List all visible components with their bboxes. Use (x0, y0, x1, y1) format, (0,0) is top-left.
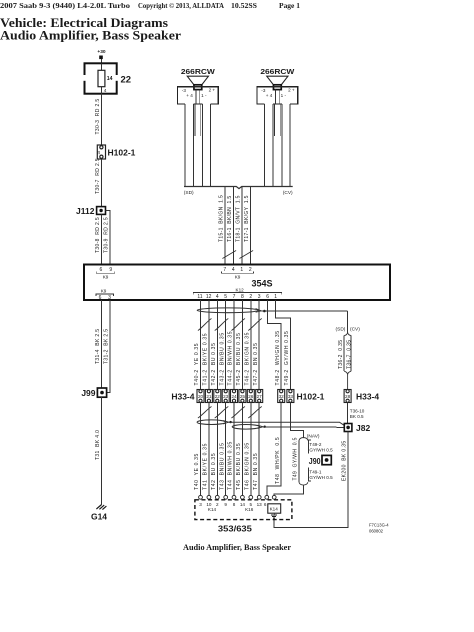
K14 right sub-box (268, 504, 281, 513)
NAV fork split (299, 438, 308, 441)
svg-text:2: 2 (249, 294, 252, 300)
twisted pair marks below H33-4 (198, 407, 212, 419)
wire through fuse (101, 63, 103, 94)
wire T36-2 (343, 336, 345, 372)
svg-text:4: 4 (104, 88, 107, 94)
NAV branch bracket upper (308, 440, 311, 454)
svg-text:Audio Amplifier, Bass Speaker: Audio Amplifier, Bass Speaker (183, 542, 291, 552)
svg-text:26: 26 (248, 394, 254, 399)
speaker 266RCW right (CV) cone (267, 76, 288, 85)
svg-text:22: 22 (215, 394, 221, 399)
wire fuse to H102-1 (101, 94, 103, 145)
wire T49 GY/WH direct branch (298, 441, 300, 482)
svg-text:7: 7 (223, 267, 226, 273)
junction dot oval B (264, 426, 266, 428)
svg-text:14: 14 (107, 76, 113, 82)
svg-text:3: 3 (199, 502, 202, 507)
ground G14 (96, 505, 106, 510)
svg-text:T43 BN/BU 0.35: T43 BN/BU 0.35 (219, 442, 225, 490)
svg-text:32: 32 (279, 394, 285, 399)
svg-text:T49-2: T49-2 (309, 442, 321, 447)
wire bus to 354S pin (241, 187, 243, 265)
svg-text:T44 BN/WH 0.35: T44 BN/WH 0.35 (228, 441, 234, 490)
svg-text:22: 22 (121, 75, 132, 86)
NAV branch bracket lower (308, 468, 311, 482)
SD/CV merge (344, 371, 351, 389)
svg-text:T46-2 BK/GN 0.35: T46-2 BK/GN 0.35 (244, 332, 250, 386)
svg-text:T15-1 BK/GN 1.5: T15-1 BK/GN 1.5 (219, 195, 225, 242)
terminal circles 353/635 (199, 495, 277, 499)
svg-text:T49 GY/WH 0.5: T49 GY/WH 0.5 (293, 437, 299, 480)
svg-text:2 +: 2 + (209, 88, 216, 93)
wire J112 branch right (106, 211, 111, 265)
connector H33-4 pin 27 (256, 390, 263, 403)
svg-text:T30-9 RD 2.5: T30-9 RD 2.5 (104, 217, 110, 253)
splice J99 (97, 388, 106, 397)
svg-text:7: 7 (233, 294, 236, 300)
svg-text:T49-1: T49-1 (309, 470, 321, 475)
svg-text:6: 6 (264, 502, 267, 507)
svg-text:10.52SS: 10.52SS (231, 1, 257, 10)
svg-text:T48 WH/PK 0.5: T48 WH/PK 0.5 (275, 437, 281, 484)
wire bus to 354S pin (250, 187, 252, 265)
K9 bracket top-middle (222, 271, 254, 273)
svg-text:9: 9 (109, 267, 112, 273)
connector H102-1 pin 32 (278, 390, 285, 403)
connector H33-4 pin 25 (239, 390, 246, 403)
svg-text:6: 6 (100, 267, 103, 273)
svg-text:J82: J82 (356, 423, 370, 433)
svg-text:K14: K14 (208, 507, 217, 512)
wire 28 to J82 (T36-10) (347, 403, 349, 424)
twisted pair marks below 354S (198, 319, 212, 331)
eight wires to 353/635 (201, 403, 260, 496)
svg-text:+30: +30 (97, 49, 105, 55)
svg-text:Page 1: Page 1 (279, 1, 300, 10)
svg-text:K9: K9 (101, 289, 107, 294)
shield drain junction (263, 310, 266, 313)
svg-text:266RCW: 266RCW (181, 67, 216, 76)
svg-text:354S: 354S (252, 279, 273, 289)
svg-text:K16: K16 (245, 507, 254, 512)
svg-text:H33-4: H33-4 (171, 391, 194, 401)
speaker 266RCW left (SD) magnet (194, 85, 202, 90)
svg-text:T46 BK/GN 0.35: T46 BK/GN 0.35 (244, 442, 250, 490)
wire H102-1 to J112 (101, 159, 103, 207)
speaker 266RCW left (SD) housing (178, 87, 219, 104)
wire 33 to NAV fork (290, 403, 303, 438)
svg-text:T48-2 WH/GN 0.35: T48-2 WH/GN 0.35 (275, 330, 281, 385)
speaker 266RCW right (CV) housing (257, 87, 298, 104)
svg-text:T47-2 BN 0.35: T47-2 BN 0.35 (253, 342, 259, 385)
wire bus to 354S pin (224, 187, 226, 265)
connector H102-1 pin 33 (287, 390, 294, 403)
svg-text:K12: K12 (236, 287, 245, 292)
svg-text:24: 24 (231, 394, 237, 399)
svg-text:K14: K14 (270, 507, 279, 512)
splice J112 (97, 207, 106, 215)
svg-text:28: 28 (345, 394, 351, 399)
svg-text:33: 33 (288, 394, 294, 399)
svg-text:T49-2 GY/WH 0.35: T49-2 GY/WH 0.35 (284, 331, 290, 386)
svg-text:T41 BK/YE 0.35: T41 BK/YE 0.35 (203, 443, 209, 490)
svg-text:13: 13 (257, 502, 263, 507)
svg-text:T40-2 YE 0.35: T40-2 YE 0.35 (194, 343, 200, 386)
wire pin 1 to H102-1 pin 33 (276, 300, 291, 390)
svg-text:T30-7 RD 2.5: T30-7 RD 2.5 (95, 158, 101, 194)
wire pin 6 to H102-1 pin 32 (268, 300, 282, 390)
svg-text:T43-2 BN/BU 0.35: T43-2 BN/BU 0.35 (219, 332, 225, 385)
svg-text:12: 12 (206, 294, 212, 300)
eight amp output wires (201, 300, 260, 390)
svg-text:T42-2 BU 0.35: T42-2 BU 0.35 (211, 342, 217, 385)
svg-text:11: 11 (197, 294, 202, 300)
svg-text:T18-1 GN/VT 1.5: T18-1 GN/VT 1.5 (236, 195, 242, 242)
speaker 266RCW left (SD) magnet wires (196, 90, 200, 104)
svg-text:1 -: 1 - (281, 93, 287, 98)
svg-text:BK 0.5: BK 0.5 (350, 414, 364, 419)
svg-text:(SD): (SD) (184, 190, 194, 196)
svg-text:T45 BK/BU 0.35: T45 BK/BU 0.35 (236, 443, 242, 490)
speaker 266RCW right (CV) magnet (273, 85, 281, 90)
svg-text:G14: G14 (91, 511, 107, 521)
shield drain wire to SD/CV branch (261, 310, 347, 312)
svg-text:3: 3 (258, 294, 261, 300)
speaker 266RCW left (SD) wires to bus (185, 104, 210, 187)
svg-text:(SD): (SD) (336, 326, 346, 332)
svg-text:T17-1 BK/GY 1.5: T17-1 BK/GY 1.5 (244, 195, 250, 242)
wire bus to 354S pin (233, 187, 235, 265)
svg-text:H33-4: H33-4 (356, 391, 379, 401)
fuse 22 box (83, 63, 118, 93)
speaker 266RCW left (SD) cone (187, 76, 208, 85)
svg-text:T36-7 0.35: T36-7 0.35 (346, 340, 352, 369)
shield oval lower A (197, 420, 225, 425)
svg-text:T36-2 0.35: T36-2 0.35 (338, 340, 344, 369)
svg-text:T41-2 BK/YE 0.35: T41-2 BK/YE 0.35 (203, 333, 209, 386)
svg-text:1 -: 1 - (201, 93, 207, 98)
svg-text:H102-1: H102-1 (108, 147, 136, 157)
svg-text:Audio Amplifier, Bass Speaker: Audio Amplifier, Bass Speaker (0, 28, 181, 43)
svg-text:+ 4: + 4 (186, 93, 193, 98)
svg-text:T45-2 BK/BU 0.35: T45-2 BK/BU 0.35 (236, 332, 242, 385)
svg-text:266RCW: 266RCW (260, 67, 295, 76)
drain wire oval B to J82 (263, 426, 344, 429)
wire T31-2 BK 2.5 (107, 300, 110, 393)
svg-text:(CV): (CV) (283, 190, 293, 196)
speaker 266RCW left (SD) channel stubs (195, 104, 201, 136)
svg-text:21: 21 (206, 394, 212, 399)
svg-text:K9: K9 (235, 274, 241, 279)
svg-text:J112: J112 (76, 206, 95, 216)
svg-text:060802: 060802 (369, 529, 384, 534)
shield oval upper (197, 308, 258, 313)
drain wire oval A to J82 (229, 422, 345, 425)
wire EK200 BK from J82 to ground (274, 432, 348, 528)
svg-text:2 +: 2 + (288, 88, 295, 93)
svg-text:4: 4 (232, 267, 235, 273)
svg-text:20: 20 (198, 394, 204, 399)
svg-text:1: 1 (274, 294, 277, 300)
svg-text:T42 BU 0.35: T42 BU 0.35 (211, 453, 217, 490)
svg-text:2: 2 (249, 267, 252, 273)
svg-text:GY/WH 0.5: GY/WH 0.5 (309, 448, 333, 453)
speaker 266RCW right (CV) wires to bus (265, 104, 290, 187)
speaker bus line (184, 187, 293, 189)
svg-text:K9: K9 (103, 274, 109, 279)
SD/CV split (344, 332, 351, 335)
wire T31-4 BK 2.5 (101, 300, 103, 388)
connector H33-4 pin 21 (205, 390, 212, 403)
svg-text:2007 Saab 9-3 (9440) L4-2.0L T: 2007 Saab 9-3 (9440) L4-2.0L Turbo (0, 1, 130, 10)
svg-text:27: 27 (257, 394, 263, 399)
svg-text:6: 6 (266, 294, 269, 300)
svg-text:T31 BK 4.0: T31 BK 4.0 (95, 430, 101, 460)
svg-text:353/635: 353/635 (218, 525, 253, 534)
svg-text:H102-1: H102-1 (297, 391, 325, 401)
svg-text:T36-10: T36-10 (350, 408, 365, 413)
wire J112 down (101, 214, 103, 264)
wire drain down to SD/CV (347, 311, 349, 332)
svg-text:8: 8 (233, 502, 236, 507)
svg-text:Copyright © 2013, ALLDATA: Copyright © 2013, ALLDATA (138, 1, 224, 10)
wire T31 BK 4.0 to G14 (101, 397, 103, 504)
svg-text:T30-8 RD 2.5: T30-8 RD 2.5 (95, 217, 101, 253)
svg-text:T31-2 BK 2.5: T31-2 BK 2.5 (104, 329, 110, 364)
svg-text:5: 5 (224, 294, 227, 300)
NAV fork merge (299, 482, 308, 485)
svg-text:4: 4 (216, 294, 219, 300)
splice J82 (344, 424, 352, 432)
svg-text:2: 2 (216, 502, 219, 507)
svg-text:T47 BN 0.35: T47 BN 0.35 (253, 453, 259, 490)
svg-text:T40 YE 0.35: T40 YE 0.35 (194, 453, 200, 490)
svg-text:EK200 BK 0.35: EK200 BK 0.35 (341, 441, 347, 481)
shield oval lower B (232, 425, 260, 430)
svg-text:(CV): (CV) (350, 326, 360, 332)
svg-text:GY/WH 0.5: GY/WH 0.5 (309, 475, 333, 480)
svg-text:18: 18 (97, 151, 101, 155)
svg-text:23: 23 (223, 394, 229, 399)
svg-text:+ 4: + 4 (266, 93, 273, 98)
K9 bracket top-left (96, 271, 115, 273)
wire NAV merge to 353/635 (274, 485, 303, 495)
connector H33-4 pin 20 (197, 390, 204, 403)
fuse element 14 (98, 70, 105, 86)
wire T48 WH/PK to 353/635 (267, 403, 281, 496)
connector H33-4 pin 22 (214, 390, 221, 403)
svg-text:T44-2 BN/WH 0.35: T44-2 BN/WH 0.35 (228, 331, 234, 386)
svg-text:F7C13G-4: F7C13G-4 (369, 523, 389, 528)
twisted pair marks above 354S (222, 251, 236, 259)
svg-text:T16-1 BK/BN 1.5: T16-1 BK/BN 1.5 (227, 195, 233, 242)
svg-text:25: 25 (240, 394, 246, 399)
connector H102-1 (top) (97, 145, 105, 159)
speaker 266RCW right (CV) magnet wires (275, 90, 279, 104)
internal ground 353/635 (271, 513, 277, 518)
connector H33-4 pin 24 (231, 390, 238, 403)
svg-text:(NAV): (NAV) (307, 433, 320, 439)
svg-text:9: 9 (224, 502, 227, 507)
speaker 266RCW right (CV) channel stubs (274, 104, 280, 136)
svg-text:8: 8 (241, 294, 244, 300)
svg-text:T31-4 BK 2.5: T31-4 BK 2.5 (95, 329, 101, 364)
amplifier 354S box (84, 265, 390, 301)
svg-text:J90: J90 (309, 456, 321, 466)
svg-text:1: 1 (240, 267, 243, 273)
connector H33-4 pin 28 (344, 390, 351, 403)
connector H33-4 pin 26 (247, 390, 254, 403)
component 353/635 dashed box (195, 500, 292, 520)
wire T36-7 (350, 336, 352, 372)
connector H33-4 pin 23 (222, 390, 229, 403)
svg-text:J99: J99 (81, 388, 95, 398)
svg-text:T30-3 RD 2.5: T30-3 RD 2.5 (95, 99, 101, 135)
junction dot oval A (229, 421, 231, 423)
wire +30 to fuse 22 (101, 59, 103, 63)
